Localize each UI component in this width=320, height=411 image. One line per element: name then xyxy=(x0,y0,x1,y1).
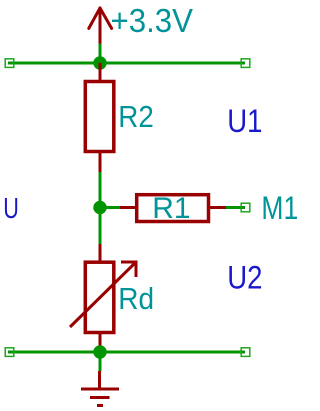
svg-text:U: U xyxy=(3,193,19,225)
wire R2 to middle node xyxy=(99,172,102,208)
node bottom-left terminal xyxy=(5,348,14,357)
node M1 terminal xyxy=(241,203,250,212)
wire middle node to Rd xyxy=(99,208,102,245)
node top-right terminal xyxy=(241,59,250,68)
svg-text:U1: U1 xyxy=(227,103,262,139)
svg-text:+3.3V: +3.3V xyxy=(111,2,194,39)
wire power stub to top rail xyxy=(99,44,102,64)
svg-text:U2: U2 xyxy=(227,260,262,296)
resistor Rd (variable) xyxy=(70,244,136,346)
wire bottom rail xyxy=(8,351,245,354)
power symbol +3.3V arrow xyxy=(89,8,112,44)
svg-text:R1: R1 xyxy=(152,192,190,225)
resistor R1 xyxy=(120,195,226,222)
resistor R2 xyxy=(85,63,114,172)
junction node top xyxy=(93,56,106,69)
node top-left terminal xyxy=(5,59,14,68)
svg-text:Rd: Rd xyxy=(118,281,154,316)
wire bottom node to ground xyxy=(99,352,102,371)
wire R1 to M1 terminal xyxy=(226,206,245,209)
node bottom-right terminal xyxy=(241,348,250,357)
svg-text:M1: M1 xyxy=(261,190,298,226)
ground xyxy=(81,371,119,406)
wire middle node to R1 xyxy=(100,206,120,209)
junction node bottom xyxy=(93,345,106,358)
wire top rail xyxy=(8,62,245,65)
svg-text:R2: R2 xyxy=(118,99,154,134)
junction node middle xyxy=(93,201,106,214)
